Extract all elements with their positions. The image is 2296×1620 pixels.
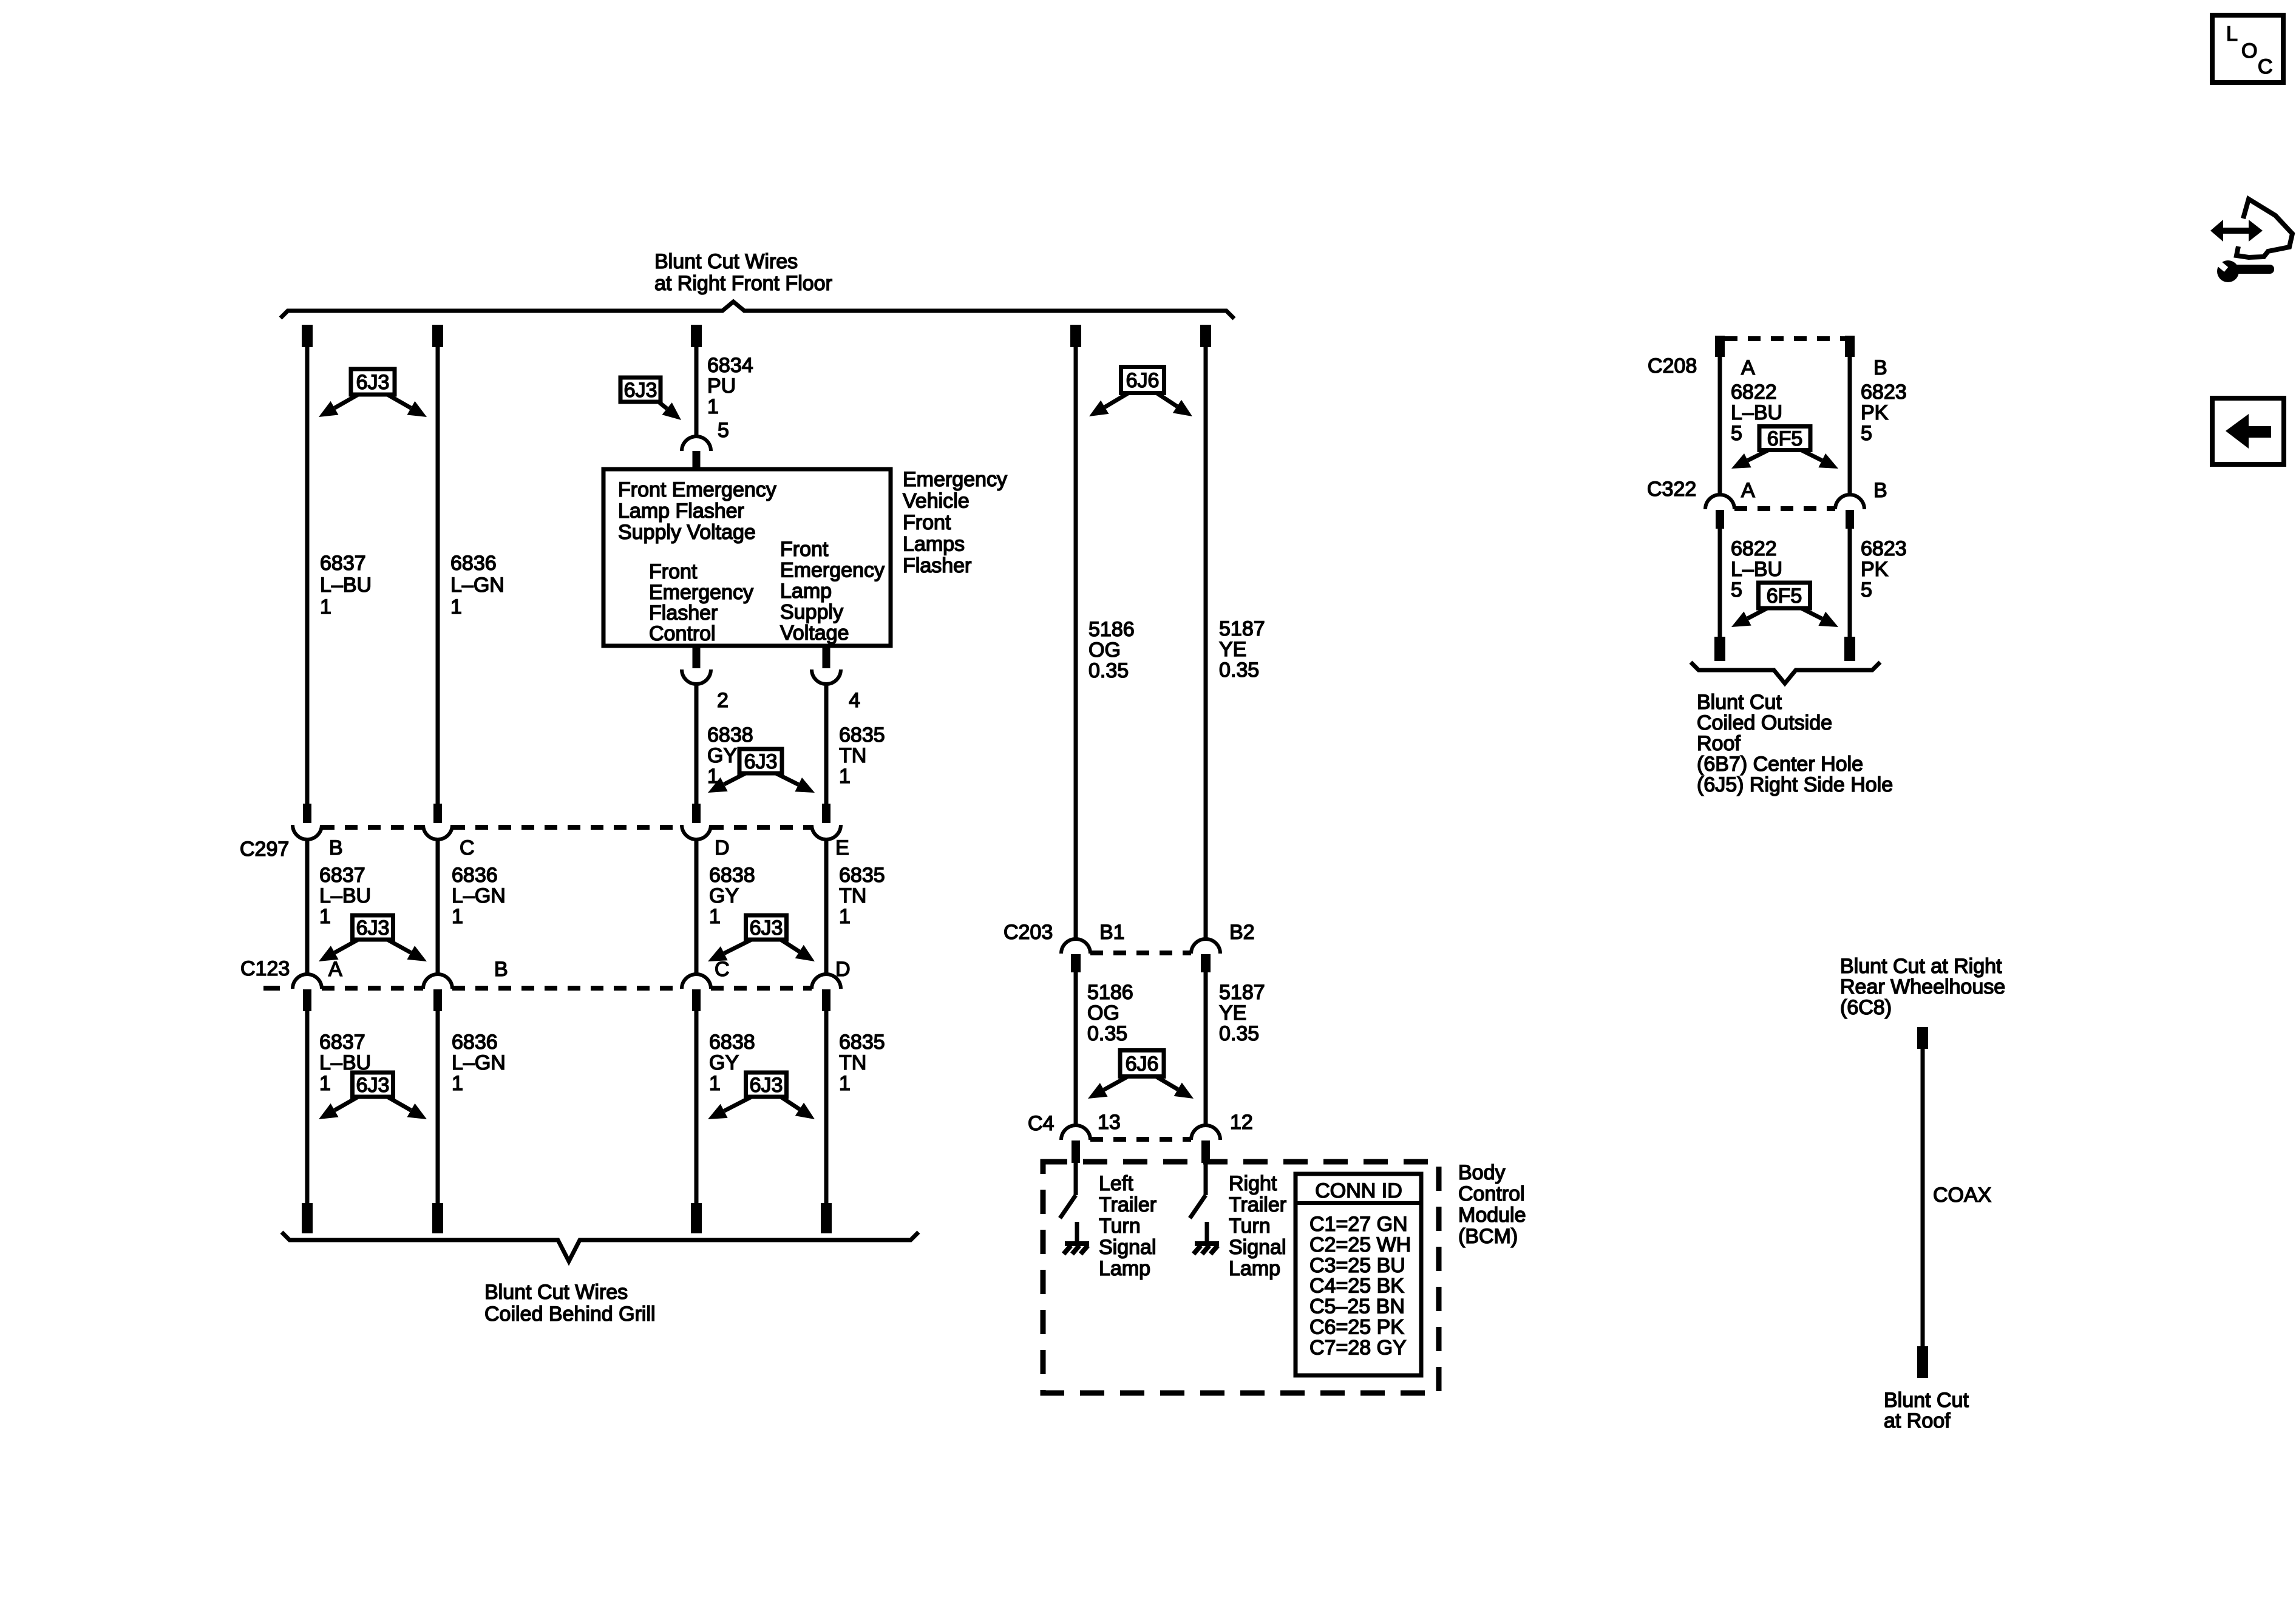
svg-text:Voltage: Voltage: [780, 622, 849, 645]
C203 pin B2 cup: [1191, 939, 1220, 954]
wire 6837 top terminal: [302, 325, 313, 347]
arrow 6J3 to wire 6836: [387, 395, 427, 417]
arrow 6J3 to wire 6835: [776, 773, 815, 793]
wire 6822 upper: [1718, 357, 1722, 496]
arrow 6J6 to 5186: [1089, 393, 1128, 416]
svg-text:Blunt Cut Wires: Blunt Cut Wires: [654, 250, 798, 273]
svg-text:Blunt Cut: Blunt Cut: [1697, 691, 1782, 714]
arrow 6J3 to wire 6838: [708, 773, 746, 793]
right switch blade: [1190, 1195, 1206, 1218]
label: Blunt Cut at Roof: [1884, 1389, 1969, 1432]
back arrow icon box: [2212, 398, 2284, 464]
svg-text:1: 1: [320, 595, 331, 619]
splice label 6J6 mid: [1120, 1051, 1164, 1077]
svg-text:Blunt Cut at Right: Blunt Cut at Right: [1840, 955, 2002, 978]
svg-text:(6B7) Center Hole: (6B7) Center Hole: [1697, 753, 1863, 776]
svg-text:1: 1: [452, 1072, 463, 1095]
svg-text:1: 1: [319, 1072, 331, 1095]
svg-text:1: 1: [709, 1072, 721, 1095]
label 6822 L-BU 5 lower: [1731, 537, 1782, 602]
svg-text:Right: Right: [1229, 1172, 1277, 1195]
svg-text:TN: TN: [839, 884, 866, 907]
connector cup pin 2: [682, 669, 711, 684]
arrow 6J6 to 5187: [1156, 1077, 1194, 1099]
C123 pin A male terminal: [303, 989, 311, 1011]
svg-text:C6=25 PK: C6=25 PK: [1309, 1316, 1404, 1339]
svg-text:1: 1: [839, 765, 851, 788]
coax top blunt terminal: [1917, 1027, 1928, 1049]
C322 pin B cup: [1835, 495, 1864, 509]
arrow 6F5 to 6823: [1801, 608, 1838, 627]
svg-text:1: 1: [450, 595, 462, 619]
wire 5186 OG upper segment: [1074, 347, 1078, 940]
svg-text:2: 2: [717, 689, 729, 712]
wire 5187 YE upper segment: [1204, 347, 1208, 940]
svg-text:6835: 6835: [839, 1031, 885, 1054]
svg-text:6834: 6834: [707, 354, 753, 377]
connector cup pin 4: [812, 669, 841, 684]
brace: Blunt Cut Wires Coiled Behind Grill: [282, 1232, 919, 1261]
svg-text:Blunt Cut: Blunt Cut: [1884, 1389, 1969, 1412]
C297 pin C male terminal: [433, 804, 442, 823]
wire 6823 lower: [1848, 529, 1852, 637]
svg-text:C297: C297: [240, 838, 289, 861]
svg-text:L–GN: L–GN: [452, 884, 506, 907]
svg-text:L–GN: L–GN: [450, 574, 504, 597]
svg-text:5187: 5187: [1219, 617, 1265, 640]
svg-text:1: 1: [839, 1072, 851, 1095]
wire 6836 blunt cut end: [432, 1203, 443, 1233]
svg-text:5186: 5186: [1087, 981, 1133, 1004]
C203 dashed connector line: [1090, 951, 1191, 955]
splice label 6J3 mid pair D-E: [739, 749, 782, 773]
svg-text:6J6: 6J6: [1126, 369, 1160, 392]
svg-text:A: A: [1741, 479, 1755, 502]
svg-text:0.35: 0.35: [1087, 1022, 1127, 1045]
brace: Blunt Cut Coiled Outside Roof: [1691, 662, 1880, 683]
arrow 6F5 to 6822: [1731, 450, 1768, 469]
svg-text:C4: C4: [1028, 1112, 1054, 1135]
C208 dashed connector line: [1725, 336, 1845, 341]
C208 pin B terminal: [1845, 336, 1855, 357]
svg-text:Coiled Behind Grill: Coiled Behind Grill: [484, 1303, 656, 1326]
LOC icon box: [2212, 15, 2283, 83]
svg-text:GY: GY: [709, 1051, 739, 1074]
svg-text:at Roof: at Roof: [1884, 1409, 1951, 1432]
left switch blade: [1060, 1195, 1076, 1218]
svg-text:Roof: Roof: [1697, 732, 1741, 755]
C123 dash stub: [263, 986, 280, 991]
label 5186 OG 0.35: [1089, 618, 1135, 682]
svg-text:Flasher: Flasher: [903, 554, 971, 577]
svg-text:Lamp Flasher: Lamp Flasher: [618, 500, 744, 523]
label 6836 L-GN 1: [450, 552, 504, 619]
splice label 6J3 near 6834: [620, 378, 661, 402]
label 6837 L-BU 1 mid: [319, 864, 371, 928]
wire 6838 lower segment: [695, 1011, 699, 1204]
label 5187 YE 0.35 mid: [1219, 981, 1265, 1045]
svg-text:Front: Front: [903, 511, 951, 534]
svg-text:D: D: [715, 836, 730, 859]
svg-text:6J3: 6J3: [356, 371, 390, 394]
svg-text:6838: 6838: [709, 1031, 755, 1054]
Body Control Module dashed box: [1043, 1162, 1439, 1393]
wire 6836 L-GN upper segment: [436, 347, 440, 804]
svg-text:(BCM): (BCM): [1458, 1225, 1518, 1248]
C4 pin 12 male terminal: [1201, 1140, 1210, 1163]
wire 6823 blunt cut end: [1844, 637, 1855, 661]
svg-text:6J3: 6J3: [750, 1074, 783, 1097]
wire 6838 blunt cut end: [691, 1203, 702, 1233]
svg-text:Control: Control: [1458, 1182, 1525, 1205]
svg-text:B: B: [329, 836, 343, 859]
C123 pin letters: [328, 958, 851, 981]
C297 dashed connector line: [322, 825, 812, 830]
C208 pin A terminal: [1715, 336, 1725, 357]
svg-text:L–BU: L–BU: [320, 574, 372, 597]
arrow 6F5 to 6823: [1802, 450, 1838, 469]
svg-text:C7=28 GY: C7=28 GY: [1309, 1336, 1407, 1359]
svg-text:6823: 6823: [1861, 381, 1907, 404]
svg-text:L–BU: L–BU: [1731, 558, 1782, 581]
C4 pin 13 cup: [1061, 1125, 1090, 1140]
svg-text:Blunt Cut Wires: Blunt Cut Wires: [484, 1281, 628, 1304]
splice label 6F5 lower: [1759, 583, 1810, 608]
wire 6836 lower segment: [436, 1011, 440, 1204]
svg-text:Lamps: Lamps: [903, 533, 965, 556]
svg-text:C2=25 WH: C2=25 WH: [1309, 1233, 1411, 1256]
wire 6823 upper: [1848, 357, 1852, 496]
svg-text:Emergency: Emergency: [649, 581, 753, 604]
arrow to 6837: [319, 1097, 358, 1119]
svg-text:Trailer: Trailer: [1099, 1193, 1156, 1216]
C4 pin numbers: [1098, 1111, 1253, 1134]
svg-text:6F5: 6F5: [1767, 427, 1803, 450]
svg-text:B: B: [1873, 479, 1887, 502]
svg-text:Signal: Signal: [1099, 1236, 1156, 1259]
svg-text:A: A: [1741, 356, 1755, 379]
wire 6835 TN from pin 4: [824, 684, 829, 804]
label 6838 GY 1 low: [709, 1031, 755, 1095]
svg-text:Lamp: Lamp: [1229, 1257, 1280, 1280]
svg-text:L: L: [2226, 22, 2238, 46]
arrow 6J6 to 5187: [1157, 393, 1192, 416]
svg-text:B: B: [494, 958, 508, 981]
arrow 6F5 to 6822: [1731, 608, 1767, 627]
svg-text:Control: Control: [649, 622, 716, 645]
svg-text:L–BU: L–BU: [1731, 401, 1782, 424]
arrow to 6836: [387, 940, 427, 961]
label 6823 PK 5 lower: [1861, 537, 1907, 602]
svg-text:COAX: COAX: [1933, 1184, 1991, 1207]
svg-text:Coiled Outside: Coiled Outside: [1697, 711, 1832, 734]
wire 6822 blunt cut end: [1714, 637, 1725, 661]
C208 pin letters: [1741, 356, 1887, 379]
C297 pin B cup: [293, 825, 322, 839]
splice label 6J3 low-left: [353, 1073, 393, 1097]
C203 pin B2 male terminal: [1201, 954, 1211, 972]
label 6835 TN 1 low: [839, 1031, 885, 1095]
svg-text:C123: C123: [240, 957, 290, 980]
svg-text:6837: 6837: [319, 1031, 365, 1054]
label Left Trailer Turn Signal Lamp: [1099, 1172, 1156, 1280]
svg-text:Front Emergency: Front Emergency: [618, 478, 776, 501]
wire into left switch: [1074, 1163, 1078, 1195]
wire 6834 PU upper segment: [695, 347, 699, 436]
svg-text:A: A: [328, 958, 342, 981]
C322 pin letters: [1741, 479, 1887, 502]
svg-text:GY: GY: [709, 884, 739, 907]
C297 pin D cup: [682, 825, 711, 839]
C123 pin B male terminal: [433, 989, 442, 1011]
svg-text:Lamp: Lamp: [1099, 1257, 1150, 1280]
svg-text:6J3: 6J3: [356, 1074, 390, 1097]
wire 6836 mid segment: [436, 839, 440, 975]
left ground stem: [1075, 1222, 1079, 1243]
svg-text:YE: YE: [1219, 638, 1246, 661]
C297 pin E male terminal: [822, 804, 830, 823]
C297 pin letters: [329, 836, 849, 859]
svg-text:Flasher: Flasher: [649, 602, 718, 625]
svg-text:C: C: [2258, 55, 2273, 78]
svg-text:O: O: [2241, 39, 2257, 63]
wire 5186 mid segment: [1074, 972, 1078, 1126]
wire 6834 top terminal: [691, 325, 702, 347]
box pin label: Front Emergency Lamp Supply Voltage: [780, 538, 885, 645]
C322 pin B male terminal: [1846, 510, 1854, 529]
svg-text:6835: 6835: [839, 864, 885, 887]
wire 6838 GY from pin 2: [695, 684, 699, 804]
svg-text:Left: Left: [1099, 1172, 1133, 1195]
svg-text:6822: 6822: [1731, 537, 1777, 560]
svg-text:5: 5: [718, 419, 729, 442]
arrow to 6835: [781, 940, 815, 961]
brace: Blunt Cut Wires at Right Front Floor: [280, 302, 1234, 319]
svg-text:Emergency: Emergency: [903, 468, 1007, 491]
svg-text:6J3: 6J3: [750, 917, 783, 940]
box pin label: Front Emergency Flasher Control: [649, 560, 753, 645]
svg-text:13: 13: [1098, 1111, 1121, 1134]
C322 pin A cup: [1705, 495, 1734, 509]
svg-text:6836: 6836: [452, 1031, 498, 1054]
C123 pin D male terminal: [822, 989, 830, 1011]
svg-text:1: 1: [709, 905, 721, 928]
svg-text:Turn: Turn: [1229, 1215, 1271, 1238]
svg-text:OG: OG: [1087, 1001, 1119, 1025]
svg-text:YE: YE: [1219, 1001, 1246, 1025]
svg-text:Turn: Turn: [1099, 1215, 1141, 1238]
wire 6835 lower segment: [824, 1011, 829, 1204]
wire 6837 lower segment: [305, 1011, 310, 1204]
label 6838 GY 1 mid: [709, 864, 755, 928]
splice label 6J3 low-right: [746, 1073, 787, 1097]
svg-text:TN: TN: [839, 1051, 866, 1074]
svg-text:Front: Front: [780, 538, 829, 561]
svg-text:C: C: [460, 836, 475, 859]
svg-text:12: 12: [1230, 1111, 1253, 1134]
svg-text:1: 1: [319, 905, 331, 928]
svg-text:L–BU: L–BU: [319, 884, 371, 907]
pin 2 male terminal: [693, 646, 701, 668]
svg-text:OG: OG: [1089, 639, 1121, 662]
svg-text:0.35: 0.35: [1219, 659, 1259, 682]
svg-text:PK: PK: [1861, 558, 1889, 581]
svg-text:1: 1: [707, 395, 719, 418]
hotlink icon: vehicle outline with arrow and wrench: [2210, 199, 2292, 282]
wire 6837 mid segment: [305, 839, 310, 975]
label 6836 L-GN 1 low: [452, 1031, 506, 1095]
svg-text:Trailer: Trailer: [1229, 1193, 1286, 1216]
component box: Front Emergency Lamp Flasher: [603, 469, 891, 646]
C322 dashed connector line: [1734, 506, 1835, 511]
CONN ID table: [1296, 1174, 1421, 1375]
C4 pin 12 cup: [1191, 1125, 1220, 1140]
svg-text:C203: C203: [1004, 921, 1053, 944]
svg-text:B1: B1: [1099, 921, 1125, 944]
arrow 6J3 to wire 6837: [319, 395, 358, 417]
svg-text:Front: Front: [649, 560, 698, 583]
svg-text:PU: PU: [707, 374, 736, 398]
label: Blunt Cut Wires Coiled Behind Grill: [484, 1281, 656, 1326]
svg-text:C208: C208: [1648, 354, 1697, 378]
svg-text:C: C: [715, 958, 730, 981]
svg-text:C5–25 BN: C5–25 BN: [1309, 1295, 1405, 1318]
splice label 6J3 top-left: [351, 369, 395, 395]
arrow 6J6 to 5186: [1088, 1077, 1127, 1099]
svg-text:Module: Module: [1458, 1204, 1526, 1227]
arrow to 6838: [708, 940, 752, 961]
svg-text:Emergency: Emergency: [780, 559, 885, 582]
right ground stem: [1205, 1222, 1209, 1243]
svg-text:Signal: Signal: [1229, 1236, 1286, 1259]
svg-text:GY: GY: [707, 744, 737, 767]
svg-text:6F5: 6F5: [1767, 585, 1802, 608]
C123 pin A cup: [293, 974, 322, 989]
wire 6838 mid segment: [695, 839, 699, 975]
C203 pin B1 male terminal: [1071, 954, 1081, 972]
C4 pin 13 male terminal: [1072, 1140, 1080, 1163]
arrow to 6837: [319, 940, 358, 961]
svg-text:L–GN: L–GN: [452, 1051, 506, 1074]
coax wire: [1921, 1049, 1925, 1346]
pin 5 male terminal: [693, 451, 701, 469]
C123 pin C male terminal: [692, 989, 701, 1011]
svg-text:C3=25 BU: C3=25 BU: [1309, 1254, 1405, 1277]
label 6835 TN 1 mid: [839, 864, 885, 928]
wire 5186 top terminal: [1070, 325, 1081, 347]
splice label 6J3 mid-left: [353, 915, 393, 940]
label 6836 L-GN 1 mid: [452, 864, 506, 928]
svg-text:E: E: [835, 836, 849, 859]
right chassis ground: [1194, 1244, 1219, 1254]
pin 4 male terminal: [823, 646, 830, 668]
svg-text:6J3: 6J3: [744, 750, 778, 773]
svg-text:5: 5: [1731, 422, 1742, 445]
svg-text:0.35: 0.35: [1219, 1022, 1259, 1045]
C322 pin A male terminal: [1716, 510, 1724, 529]
C123 pin C cup: [682, 974, 711, 989]
C297 pin D male terminal: [692, 804, 701, 823]
svg-text:5: 5: [1731, 578, 1742, 602]
C297 pin C cup: [423, 825, 452, 839]
svg-text:Body: Body: [1458, 1161, 1506, 1184]
arrow 6J3 to wire 6834: [659, 402, 681, 420]
splice label 6J6 top: [1121, 367, 1164, 393]
C203 pin B1 cup: [1061, 939, 1090, 954]
svg-text:6822: 6822: [1731, 381, 1777, 404]
svg-text:6835: 6835: [839, 724, 885, 747]
svg-text:6838: 6838: [707, 724, 753, 747]
svg-text:C322: C322: [1647, 478, 1696, 501]
label 6838 GY 1: [707, 724, 753, 788]
component name: Emergency Vehicle Front Lamps Flasher: [903, 468, 1007, 577]
svg-text:5: 5: [1861, 578, 1872, 602]
svg-text:6836: 6836: [450, 552, 497, 575]
label 5187 YE 0.35: [1219, 617, 1265, 682]
svg-text:TN: TN: [839, 744, 866, 767]
svg-text:0.35: 0.35: [1089, 659, 1129, 682]
svg-text:Vehicle: Vehicle: [903, 490, 970, 513]
wire 5187 mid segment: [1204, 972, 1208, 1126]
svg-text:B: B: [1873, 356, 1887, 379]
svg-text:CONN ID: CONN ID: [1315, 1179, 1402, 1202]
arrow to 6836: [387, 1097, 427, 1119]
wire 6836 top terminal: [432, 325, 443, 347]
wire 6822 lower: [1718, 529, 1722, 637]
svg-text:Lamp: Lamp: [780, 580, 832, 603]
svg-text:1: 1: [452, 905, 463, 928]
wire into right switch: [1204, 1163, 1208, 1195]
arrow to 6838: [708, 1097, 752, 1119]
svg-text:6838: 6838: [709, 864, 755, 887]
svg-text:4: 4: [849, 689, 860, 712]
svg-text:Supply: Supply: [780, 601, 843, 624]
label 5186 OG 0.35 mid: [1087, 981, 1133, 1045]
connector cup pin 5: [682, 436, 711, 451]
left chassis ground: [1064, 1244, 1089, 1254]
svg-text:6J3: 6J3: [624, 379, 657, 402]
svg-text:C1=27 GN: C1=27 GN: [1309, 1213, 1408, 1236]
svg-text:6J6: 6J6: [1126, 1052, 1159, 1076]
BCM name: Body Control Module (BCM): [1458, 1161, 1526, 1248]
svg-text:5186: 5186: [1089, 618, 1135, 641]
label 6837 L-BU 1 low: [319, 1031, 371, 1095]
label 6834 PU 1: [707, 354, 753, 418]
svg-text:B2: B2: [1229, 921, 1255, 944]
splice label 6J3 mid-right: [746, 915, 787, 940]
coax bottom blunt terminal: [1917, 1346, 1928, 1378]
label: Blunt Cut at Right Rear Wheelhouse (6C8): [1840, 955, 2005, 1019]
label 6822 L-BU 5 upper: [1731, 381, 1782, 445]
label 6837 L-BU 1: [320, 552, 372, 619]
svg-text:(6J5) Right Side Hole: (6J5) Right Side Hole: [1697, 773, 1893, 796]
label 6823 PK 5 upper: [1861, 381, 1907, 445]
svg-text:6837: 6837: [320, 552, 366, 575]
svg-text:PK: PK: [1861, 401, 1889, 424]
svg-text:6J3: 6J3: [356, 917, 390, 940]
label 6835 TN 1: [839, 724, 885, 788]
wire 6835 mid segment: [824, 839, 829, 975]
label: Blunt Cut Coiled Outside Roof (6B7) Center Hole (6J5) Right Side Hole: [1697, 691, 1893, 796]
wire 6835 blunt cut end: [821, 1203, 832, 1233]
C4 dashed connector line: [1090, 1137, 1191, 1142]
svg-text:Supply Voltage: Supply Voltage: [618, 521, 756, 544]
C297 pin E cup: [812, 825, 841, 839]
box title: Front Emergency Lamp Flasher Supply Voltage: [618, 478, 776, 544]
svg-text:C4=25 BK: C4=25 BK: [1309, 1275, 1404, 1298]
svg-text:6836: 6836: [452, 864, 498, 887]
svg-text:5187: 5187: [1219, 981, 1265, 1004]
